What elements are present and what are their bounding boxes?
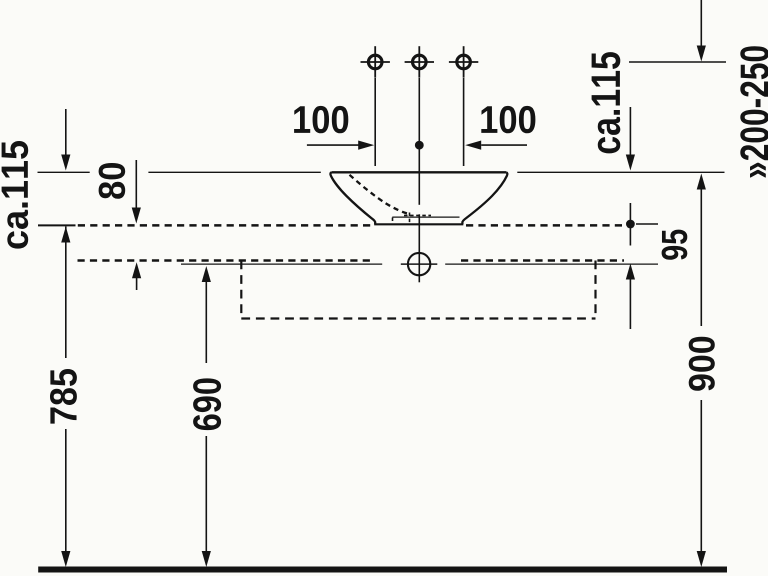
drain line left segment xyxy=(181,263,382,265)
basin foot bottom xyxy=(374,223,463,225)
dimension ca.115 left arrow xyxy=(61,109,70,171)
hidden drain dash vertical mid xyxy=(409,213,411,224)
countertop surface solid right end xyxy=(636,223,658,225)
dimension 95 marker line xyxy=(629,203,631,246)
drain crosshair arm xyxy=(401,263,438,265)
countertop surface dashed line xyxy=(78,224,371,227)
dimension 80 upper arrow xyxy=(132,160,141,224)
countertop surface solid left end xyxy=(38,224,76,226)
label-690 xyxy=(193,378,221,430)
label-100-left xyxy=(294,106,348,133)
dimension 100 left arrow xyxy=(307,141,374,150)
rim level line right segment xyxy=(517,171,724,173)
dimension ca.115 right arrow xyxy=(626,107,635,171)
label-80 xyxy=(99,163,126,199)
faucet hole circle 1 xyxy=(361,46,390,77)
label-ca115-left xyxy=(2,141,29,249)
floor line xyxy=(38,567,727,573)
label-900 xyxy=(689,337,715,391)
dimension 80 lower arrow xyxy=(132,262,141,290)
drain line right segment xyxy=(445,263,658,265)
drawer dashed outline left xyxy=(240,261,242,319)
dimension 900 line xyxy=(697,174,706,568)
label-200-250 xyxy=(740,46,768,177)
drawer dashed outline bottom xyxy=(241,317,595,319)
dimension 100 center dot xyxy=(415,141,424,150)
basin right wall xyxy=(462,172,507,224)
label-95 xyxy=(662,230,688,260)
basin hidden interior slope dashed xyxy=(350,175,409,214)
dimension 95 lower arrow xyxy=(626,264,635,330)
basin left wall xyxy=(330,172,375,224)
dimension 100 right arrow xyxy=(465,141,527,150)
faucet hole circle 2 xyxy=(405,46,434,77)
basin inner bottom line xyxy=(392,216,459,218)
faucet hole reference line right xyxy=(629,61,726,63)
dimension 690 line xyxy=(202,266,211,567)
center line upper xyxy=(418,78,420,205)
hidden drain dash horizontal xyxy=(404,214,431,216)
dimension 200-250 arrow xyxy=(697,0,706,62)
label-100-right xyxy=(481,106,535,133)
countertop surface dashed line right of basin xyxy=(466,224,624,227)
extension line left faucet xyxy=(374,78,376,166)
rim level line left segment a xyxy=(38,171,90,173)
dimension 785 line xyxy=(61,227,70,568)
label-ca115-right xyxy=(592,52,621,153)
countertop reference dot right xyxy=(626,220,635,229)
countertop bottom dashed line right part xyxy=(461,259,624,262)
drawer dashed outline right xyxy=(594,261,596,319)
drain circle xyxy=(408,253,430,275)
basin rim top xyxy=(332,171,507,173)
countertop bottom dashed line left part xyxy=(78,259,374,262)
faucet hole circle 3 xyxy=(449,46,478,77)
rim level line left segment b xyxy=(148,171,320,173)
label-785 xyxy=(50,369,77,424)
hidden drain dash vertical left xyxy=(392,218,394,224)
center line lower xyxy=(418,214,420,282)
extension line right faucet xyxy=(463,78,465,166)
